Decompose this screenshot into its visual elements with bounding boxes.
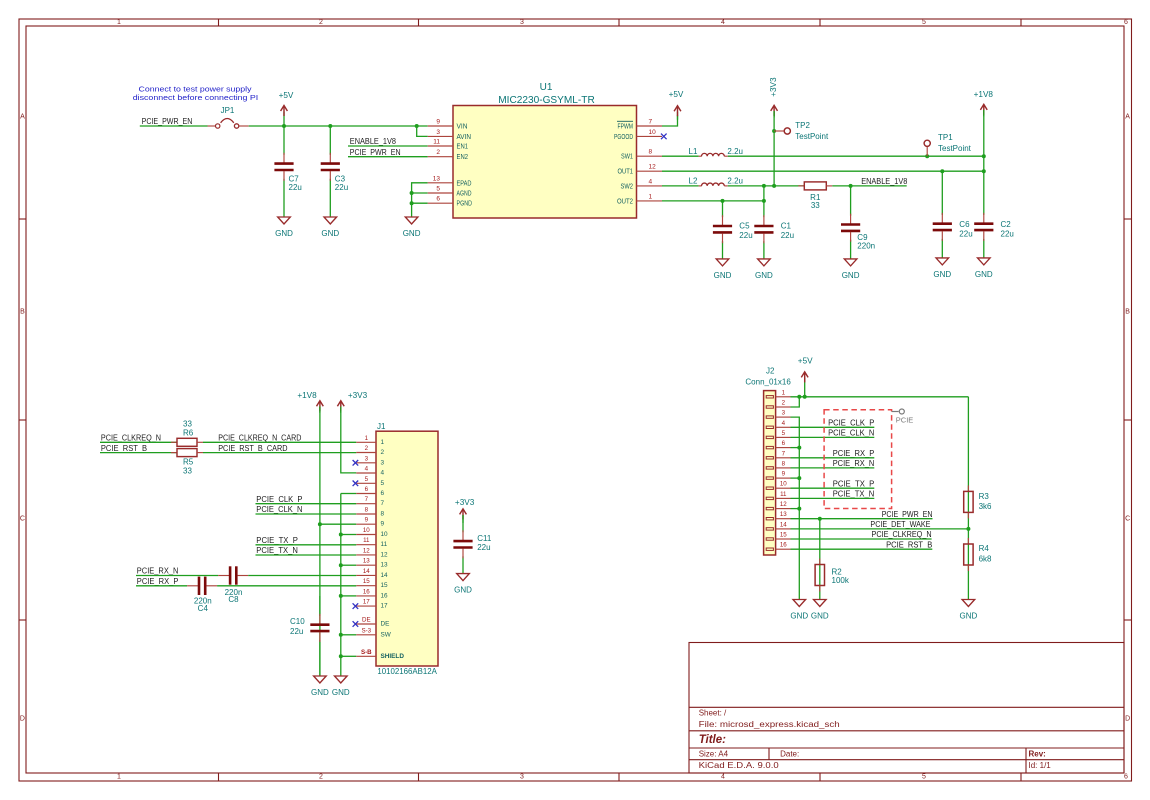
svg-text:ENABLE_1V8: ENABLE_1V8 xyxy=(861,177,908,186)
capacitor C6 xyxy=(933,171,973,258)
ground xyxy=(403,217,421,238)
junction xyxy=(966,527,970,531)
svg-text:17: 17 xyxy=(381,603,389,610)
svg-text:GND: GND xyxy=(332,688,350,697)
svg-text:disconnect before connecting P: disconnect before connecting PI xyxy=(133,93,259,102)
svg-text:9: 9 xyxy=(365,517,369,524)
resistor R2 xyxy=(815,559,850,592)
junction xyxy=(797,476,801,480)
wire FPWM to +5V xyxy=(662,116,678,127)
capacitor C5 xyxy=(713,201,753,259)
svg-text:C4: C4 xyxy=(198,604,209,613)
svg-text:GND: GND xyxy=(960,611,978,620)
svg-text:12: 12 xyxy=(363,547,370,554)
wire J2 pin5 PCIE_CLK_N xyxy=(791,436,875,438)
svg-text:PCIE_CLKREQ_N_CARD: PCIE_CLKREQ_N_CARD xyxy=(218,434,301,443)
junction xyxy=(410,191,414,195)
ground xyxy=(454,574,472,595)
wire J2 pin16 xyxy=(791,548,933,550)
svg-text:10102166AB12A: 10102166AB12A xyxy=(377,667,437,676)
wire SW1 to L1 xyxy=(662,155,699,157)
svg-text:1: 1 xyxy=(117,19,121,26)
svg-text:9: 9 xyxy=(782,471,786,478)
svg-text:L1: L1 xyxy=(689,147,698,156)
capacitor C2 xyxy=(974,171,1014,258)
junction xyxy=(797,395,801,399)
svg-text:GND: GND xyxy=(790,611,808,620)
wire +1V8 rail xyxy=(983,110,985,171)
svg-text:Id: 1/1: Id: 1/1 xyxy=(1029,761,1052,770)
svg-text:6k8: 6k8 xyxy=(979,554,992,563)
svg-text:5: 5 xyxy=(436,186,440,193)
wire to J1 pin1 xyxy=(203,441,356,443)
wire gnd rail at J1 xyxy=(340,494,342,677)
wire J2 pin13 xyxy=(791,518,933,520)
wire gnd rail to SW pin xyxy=(341,634,357,636)
svg-text:SW1: SW1 xyxy=(621,152,633,161)
wire PCIE_PWR_EN to EN2 xyxy=(348,156,428,158)
svg-text:1: 1 xyxy=(782,389,786,396)
svg-text:15: 15 xyxy=(381,582,389,589)
svg-text:D: D xyxy=(20,716,25,723)
svg-text:4: 4 xyxy=(782,420,786,427)
junction xyxy=(772,129,776,133)
svg-text:J1: J1 xyxy=(377,422,386,431)
svg-text:GND: GND xyxy=(975,270,993,279)
svg-text:PCIE_TX_P: PCIE_TX_P xyxy=(256,536,298,545)
svg-text:2: 2 xyxy=(319,774,323,781)
wire L1 to +1V8 rail xyxy=(728,155,984,157)
svg-text:MIC2230-GSYML-TR: MIC2230-GSYML-TR xyxy=(498,95,595,106)
svg-text:EN1: EN1 xyxy=(457,142,469,151)
svg-text:PCIE_RX_P: PCIE_RX_P xyxy=(833,449,875,458)
svg-text:+3V3: +3V3 xyxy=(455,498,475,507)
svg-text:8: 8 xyxy=(782,460,786,467)
ground xyxy=(714,259,732,280)
resistor R3 xyxy=(964,485,992,518)
svg-text:C: C xyxy=(20,516,25,523)
svg-text:22u: 22u xyxy=(477,543,490,552)
wire gnd rail to pin16 xyxy=(341,595,357,597)
svg-text:9: 9 xyxy=(436,119,440,126)
svg-text:1: 1 xyxy=(117,774,121,781)
svg-text:11: 11 xyxy=(381,541,388,548)
svg-text:PCIE_PWR_EN: PCIE_PWR_EN xyxy=(882,510,933,519)
svg-text:PCIE_CLKREQ_N: PCIE_CLKREQ_N xyxy=(872,530,932,539)
svg-text:PCIE_RX_N: PCIE_RX_N xyxy=(833,459,875,468)
wire J2 pin14 xyxy=(791,528,969,530)
svg-text:PCIE_PWR_EN: PCIE_PWR_EN xyxy=(350,148,401,157)
svg-text:10: 10 xyxy=(363,527,370,534)
svg-text:7: 7 xyxy=(381,500,385,507)
junction xyxy=(328,124,332,128)
svg-text:3: 3 xyxy=(365,455,369,462)
svg-text:Conn_01x16: Conn_01x16 xyxy=(745,378,791,387)
power +3V3 at J1 xyxy=(337,391,367,413)
svg-text:DE: DE xyxy=(381,621,390,628)
svg-text:4: 4 xyxy=(649,178,653,185)
power +3V3 xyxy=(769,77,778,117)
svg-text:R3: R3 xyxy=(979,492,990,501)
capacitor C1 xyxy=(754,201,794,259)
svg-text:10: 10 xyxy=(381,531,389,538)
no-connect xyxy=(353,603,359,609)
wire EPAD AGND PGND tie xyxy=(412,183,428,217)
svg-text:1: 1 xyxy=(365,435,369,442)
svg-text:PCIE_CLKREQ_N: PCIE_CLKREQ_N xyxy=(101,434,161,443)
svg-text:DE: DE xyxy=(362,617,371,624)
connector J2 Conn_01x16 xyxy=(745,366,791,555)
wire OUT1 net xyxy=(662,170,984,172)
wire to J1 pin2 xyxy=(203,452,356,454)
svg-text:Rev:: Rev: xyxy=(1029,749,1046,758)
svg-text:GND: GND xyxy=(811,611,829,620)
svg-text:TestPoint: TestPoint xyxy=(938,144,972,153)
svg-text:2: 2 xyxy=(365,445,369,452)
junction xyxy=(762,199,766,203)
wire SW2 to L2 xyxy=(662,185,699,187)
svg-text:PCIE_RST_B: PCIE_RST_B xyxy=(886,540,932,549)
svg-text:14: 14 xyxy=(381,572,389,579)
svg-text:GND: GND xyxy=(321,229,339,238)
svg-text:J2: J2 xyxy=(766,366,775,375)
capacitor C11 xyxy=(453,515,491,574)
svg-text:C2: C2 xyxy=(1001,220,1012,229)
ground xyxy=(790,600,808,621)
resistor R6 xyxy=(171,438,203,446)
svg-text:GND: GND xyxy=(714,271,732,280)
svg-text:FPWM: FPWM xyxy=(618,122,634,131)
ground xyxy=(755,259,773,280)
svg-text:Sheet: /: Sheet: / xyxy=(699,708,727,717)
junction xyxy=(415,124,419,128)
svg-text:6: 6 xyxy=(381,490,385,497)
svg-text:C: C xyxy=(1125,516,1130,523)
svg-text:7: 7 xyxy=(782,450,786,457)
svg-text:8: 8 xyxy=(649,149,653,156)
svg-text:EPAD: EPAD xyxy=(457,178,472,187)
junction xyxy=(339,533,343,537)
svg-text:TP2: TP2 xyxy=(795,121,810,130)
svg-text:PCIE_RST_B: PCIE_RST_B xyxy=(101,444,147,453)
svg-text:2.2u: 2.2u xyxy=(727,147,743,156)
svg-text:5: 5 xyxy=(922,774,926,781)
wire PCIE_CLK_P to pin7 xyxy=(256,503,357,505)
svg-text:22u: 22u xyxy=(335,183,348,192)
ground xyxy=(332,676,350,697)
wire C4 to pin15 xyxy=(217,585,356,587)
junction xyxy=(762,184,766,188)
svg-text:PCIE_RX_P: PCIE_RX_P xyxy=(137,577,179,586)
svg-text:PGOOD: PGOOD xyxy=(614,132,633,141)
svg-text:10: 10 xyxy=(649,129,657,136)
power +3V3 at C11 xyxy=(455,498,475,523)
wire PCIE_TX_P to pin11 xyxy=(256,544,357,546)
svg-text:+3V3: +3V3 xyxy=(348,391,368,400)
junction xyxy=(339,563,343,567)
svg-text:S-3: S-3 xyxy=(361,627,371,634)
svg-text:U1: U1 xyxy=(540,82,553,93)
junction xyxy=(721,199,725,203)
svg-text:13: 13 xyxy=(433,175,441,182)
svg-text:R5: R5 xyxy=(183,458,194,467)
no-connect xyxy=(353,460,359,466)
capacitor C3 xyxy=(321,126,348,217)
svg-text:ENABLE_1V8: ENABLE_1V8 xyxy=(350,137,397,146)
svg-text:22u: 22u xyxy=(1001,229,1014,238)
svg-text:6: 6 xyxy=(1124,19,1128,26)
svg-text:14: 14 xyxy=(780,521,787,528)
svg-text:2.2u: 2.2u xyxy=(727,177,743,186)
svg-text:17: 17 xyxy=(363,599,370,606)
svg-text:2: 2 xyxy=(319,19,323,26)
svg-text:Size: A4: Size: A4 xyxy=(699,749,729,758)
svg-text:D: D xyxy=(1125,716,1130,723)
resistor R5 text xyxy=(183,458,194,476)
wire +1V8 to pin9 xyxy=(320,523,356,525)
power +5V at FPWM xyxy=(669,90,684,120)
svg-text:22u: 22u xyxy=(289,183,302,192)
junction xyxy=(318,522,322,526)
dashed group box xyxy=(824,410,892,509)
svg-text:GND: GND xyxy=(454,586,472,595)
svg-text:22u: 22u xyxy=(959,229,972,238)
svg-text:15: 15 xyxy=(780,532,787,539)
svg-text:11: 11 xyxy=(363,537,370,544)
wire +3V3 to pin4 xyxy=(341,407,357,473)
power +1V8 xyxy=(974,90,994,116)
power +1V8 at J1 xyxy=(297,391,323,413)
IC U1 MIC2230-GSYML-TR xyxy=(428,82,662,218)
wire PCIE_PWR_EN to JP1 xyxy=(140,125,208,127)
svg-text:6: 6 xyxy=(436,196,440,203)
svg-text:33: 33 xyxy=(183,419,192,428)
junction xyxy=(772,184,776,188)
svg-text:16: 16 xyxy=(381,592,389,599)
frame row labels xyxy=(20,114,1130,723)
power +5V xyxy=(279,91,294,126)
svg-text:3: 3 xyxy=(520,774,524,781)
svg-text:C8: C8 xyxy=(228,595,239,604)
svg-text:5: 5 xyxy=(782,430,786,437)
svg-text:PCIE_CLK_N: PCIE_CLK_N xyxy=(256,505,302,514)
wire J2 pin7 PCIE_RX_P xyxy=(791,457,875,459)
wire R2 rail xyxy=(819,519,821,600)
svg-text:22u: 22u xyxy=(781,231,794,240)
ground xyxy=(311,676,329,697)
wire gnd rail to SHIELD pin xyxy=(341,655,357,657)
svg-text:1: 1 xyxy=(649,193,653,200)
junction xyxy=(818,517,822,521)
svg-text:PCIE_TX_P: PCIE_TX_P xyxy=(833,479,875,488)
svg-text:2: 2 xyxy=(436,149,440,156)
svg-text:Title:: Title: xyxy=(699,734,726,746)
svg-text:33: 33 xyxy=(183,467,192,476)
wire ENABLE_1V8 to EN1 xyxy=(348,145,428,147)
junction xyxy=(982,169,986,173)
ground xyxy=(975,258,993,279)
ground xyxy=(933,258,951,279)
svg-text:11: 11 xyxy=(780,491,787,498)
svg-text:GND: GND xyxy=(275,229,293,238)
wire AVIN branch xyxy=(417,126,428,136)
wire gnd rail to pin6 xyxy=(341,493,357,495)
wire +1V8 rail at J1 xyxy=(319,407,321,677)
svg-text:8: 8 xyxy=(365,507,369,514)
wire pin9 to gnd rail xyxy=(791,477,800,479)
svg-text:KiCad E.D.A. 9.0.0: KiCad E.D.A. 9.0.0 xyxy=(699,761,780,770)
svg-text:B: B xyxy=(20,309,25,316)
resistor R4 xyxy=(964,538,992,571)
note text xyxy=(133,85,259,103)
ground xyxy=(321,217,339,238)
svg-text:2: 2 xyxy=(381,449,385,456)
capacitor C8 xyxy=(218,566,248,584)
svg-text:13: 13 xyxy=(363,558,370,565)
capacitor C4 text xyxy=(194,597,212,613)
svg-text:PCIE_CLK_N: PCIE_CLK_N xyxy=(828,429,874,438)
capacitor C8 text xyxy=(225,588,243,604)
svg-text:13: 13 xyxy=(381,562,389,569)
svg-text:PCIE: PCIE xyxy=(896,415,914,424)
svg-text:EN2: EN2 xyxy=(457,152,469,161)
svg-text:3: 3 xyxy=(381,459,385,466)
no-connect xyxy=(353,621,359,627)
svg-text:SW: SW xyxy=(381,631,392,638)
wire J2 pin15 xyxy=(791,538,932,540)
junction xyxy=(410,201,414,205)
wire PCIE_CLKREQ_N to R6 xyxy=(100,441,177,443)
svg-text:SW2: SW2 xyxy=(621,181,634,190)
svg-text:16: 16 xyxy=(780,542,787,549)
title block xyxy=(689,643,1124,774)
svg-text:11: 11 xyxy=(433,139,440,146)
svg-text:6: 6 xyxy=(782,440,786,447)
svg-text:PCIE_RST_B_CARD: PCIE_RST_B_CARD xyxy=(218,444,287,453)
svg-text:+1V8: +1V8 xyxy=(297,391,317,400)
capacitor C9 xyxy=(841,186,875,259)
svg-text:C5: C5 xyxy=(739,222,750,231)
svg-text:100k: 100k xyxy=(832,576,850,585)
svg-text:AVIN: AVIN xyxy=(457,132,472,141)
svg-text:VIN: VIN xyxy=(457,122,468,131)
svg-text:13: 13 xyxy=(780,511,787,518)
svg-text:B: B xyxy=(1125,309,1130,316)
svg-text:7: 7 xyxy=(365,496,369,503)
svg-text:R6: R6 xyxy=(183,428,194,437)
svg-text:+5V: +5V xyxy=(669,90,684,99)
junction xyxy=(982,154,986,158)
wire R1 to ENABLE_1V8 xyxy=(832,185,906,187)
svg-text:S-B: S-B xyxy=(361,649,372,656)
junction xyxy=(282,124,286,128)
wire PCIE_CLK_N to pin8 xyxy=(256,513,357,515)
svg-text:PCIE_DET_WAKE: PCIE_DET_WAKE xyxy=(870,520,930,529)
netclass flag PCIE xyxy=(892,409,914,424)
svg-text:5: 5 xyxy=(922,19,926,26)
no-connect xyxy=(353,481,359,487)
svg-text:A: A xyxy=(20,114,25,121)
wire pin2 to pin1 xyxy=(791,397,800,407)
wire PCIE_RX_N to C8 xyxy=(136,575,218,577)
junction xyxy=(797,507,801,511)
svg-text:7: 7 xyxy=(649,119,653,126)
capacitor C7 xyxy=(274,126,301,217)
jumper JP1 xyxy=(208,106,249,128)
ground xyxy=(275,217,293,238)
test point TP2 xyxy=(774,121,829,141)
svg-text:+1V8: +1V8 xyxy=(974,90,994,99)
svg-text:OUT1: OUT1 xyxy=(618,167,634,176)
wire J2 pin8 PCIE_RX_N xyxy=(791,467,875,469)
junction xyxy=(849,184,853,188)
svg-text:A: A xyxy=(1125,114,1130,121)
svg-text:12: 12 xyxy=(649,164,657,171)
wire J2 pin10 PCIE_TX_P xyxy=(791,487,875,489)
test point TP1 xyxy=(924,133,972,156)
svg-text:3: 3 xyxy=(436,129,440,136)
resistor R6 text xyxy=(183,419,194,437)
wire C8 to pin14 xyxy=(248,575,356,577)
junction xyxy=(940,169,944,173)
svg-text:PGND: PGND xyxy=(457,199,473,208)
svg-text:JP1: JP1 xyxy=(221,106,235,115)
svg-text:15: 15 xyxy=(363,578,370,585)
svg-text:C1: C1 xyxy=(781,222,792,231)
svg-text:PCIE_CLK_P: PCIE_CLK_P xyxy=(256,495,302,504)
svg-text:22u: 22u xyxy=(739,231,752,240)
svg-text:3k6: 3k6 xyxy=(979,502,992,511)
resistor R5 xyxy=(171,449,203,457)
svg-text:PCIE_CLK_P: PCIE_CLK_P xyxy=(828,419,874,428)
svg-text:1: 1 xyxy=(381,439,385,446)
ground xyxy=(842,259,860,280)
svg-text:14: 14 xyxy=(363,568,370,575)
svg-text:File: microsd_express.kicad_sc: File: microsd_express.kicad_sch xyxy=(699,720,840,729)
svg-text:TestPoint: TestPoint xyxy=(795,132,829,141)
wire gnd rail to pin13 xyxy=(341,564,357,566)
no-connect xyxy=(661,134,667,140)
svg-text:C6: C6 xyxy=(959,220,970,229)
wire J2 pin4 PCIE_CLK_P xyxy=(791,426,875,428)
svg-text:4: 4 xyxy=(381,470,385,477)
svg-text:5: 5 xyxy=(381,480,385,487)
title block text xyxy=(699,708,1052,770)
svg-text:10: 10 xyxy=(780,481,787,488)
svg-text:16: 16 xyxy=(363,588,370,595)
svg-text:22u: 22u xyxy=(290,627,303,636)
svg-text:9: 9 xyxy=(381,521,385,528)
wire gnd rail J2 xyxy=(791,417,800,599)
capacitor C10 xyxy=(290,596,330,676)
wire gnd rail to pin10 xyxy=(341,534,357,536)
resistor R1 xyxy=(798,182,832,210)
svg-text:GND: GND xyxy=(755,271,773,280)
svg-text:GND: GND xyxy=(933,270,951,279)
wire pin6 to gnd rail xyxy=(791,447,800,449)
ground xyxy=(811,600,829,621)
svg-text:C10: C10 xyxy=(290,617,305,626)
junction xyxy=(339,654,343,658)
svg-text:PCIE_PWR_EN: PCIE_PWR_EN xyxy=(142,117,193,126)
svg-text:3: 3 xyxy=(520,19,524,26)
svg-text:TP1: TP1 xyxy=(938,133,953,142)
capacitor C4 xyxy=(187,577,217,595)
inductor L1 xyxy=(689,147,743,156)
junction xyxy=(339,594,343,598)
connector J1 10102166AB12A xyxy=(356,422,438,676)
svg-text:33: 33 xyxy=(811,201,820,210)
